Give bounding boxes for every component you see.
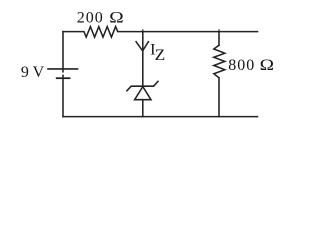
svg-text:200: 200 [77, 9, 103, 26]
svg-text:Ω: Ω [260, 57, 275, 74]
svg-text:800: 800 [228, 57, 254, 74]
svg-text:9 V: 9 V [21, 64, 45, 81]
svg-text:Z: Z [155, 47, 166, 64]
svg-text:Ω: Ω [109, 9, 124, 26]
